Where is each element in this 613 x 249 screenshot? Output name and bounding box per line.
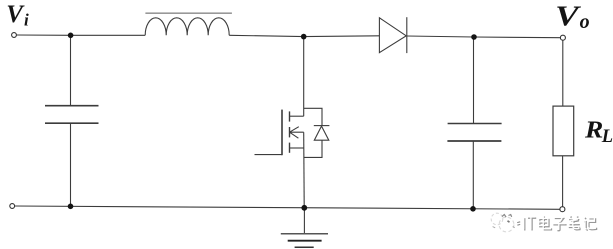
- watermark logo (panda sketch): [491, 213, 520, 232]
- resistor RL body: [553, 106, 574, 156]
- capacitor C1 top plate: [45, 105, 99, 107]
- capacitor C2 bottom plate: [447, 140, 501, 142]
- wire: body diode branch top: [304, 108, 322, 125]
- ground bar 1: [281, 233, 328, 235]
- wire: capacitor C2 to bottom rail node F: [472, 141, 474, 209]
- diode D1 cathode bar: [406, 17, 408, 53]
- ground bar 3: [295, 246, 314, 248]
- output terminal (Vo +): [560, 35, 565, 40]
- ground bar 2: [288, 240, 322, 242]
- output terminal (bottom right): [560, 207, 565, 212]
- wire: node B down to MOSFET Q1 drain: [303, 37, 305, 117]
- wire: node C to output terminal: [474, 36, 560, 39]
- wire: top rail, input terminal to inductor (through node A): [16, 34, 145, 36]
- node E junction dot: [301, 205, 307, 211]
- wire: MOSFET Q1 source down to bottom rail node E: [303, 132, 306, 208]
- capacitor C2 top plate: [448, 123, 502, 125]
- MOSFET Q1 source lead: [290, 147, 304, 149]
- svg-text:R: R: [584, 118, 603, 144]
- wire: output terminal down to resistor RL: [562, 40, 564, 106]
- wire: inductor to node B: [229, 35, 304, 36]
- MOSFET Q1 body lead with arrow: [290, 127, 304, 139]
- wire: bottom rail: [15, 206, 560, 209]
- wire: ground stem: [303, 208, 305, 234]
- input terminal (Vi +): [12, 33, 17, 38]
- svg-text:o: o: [580, 11, 590, 33]
- svg-text:V: V: [6, 1, 25, 28]
- node B junction dot: [301, 34, 307, 40]
- svg-text:i: i: [24, 11, 29, 30]
- wire: diode D1 cathode to node C: [407, 36, 474, 37]
- MOSFET Q1 drain lead: [290, 115, 304, 117]
- svg-text:V: V: [555, 0, 582, 32]
- node C junction dot: [471, 34, 477, 40]
- input terminal (bottom left): [10, 204, 15, 209]
- node D junction dot: [68, 204, 74, 210]
- capacitor C1 bottom plate: [45, 122, 99, 124]
- node F junction dot: [470, 206, 476, 212]
- MOSFET Q1 gate lead wire: [255, 154, 283, 156]
- wire: resistor RL to bottom-right terminal: [562, 156, 564, 207]
- svg-text:L: L: [601, 127, 613, 147]
- MOSFET Q1 gate plate: [281, 110, 283, 156]
- node A junction dot: [68, 33, 74, 39]
- wire: capacitor C1 to bottom rail node D: [70, 123, 72, 206]
- wire: node A down to capacitor C1: [70, 35, 72, 105]
- MOSFET Q1 channel dash (drain): [289, 111, 291, 121]
- diode D1 triangle: [379, 18, 406, 53]
- wire: node C down to capacitor C2: [473, 37, 475, 123]
- MOSFET Q1 channel dash (body): [289, 127, 291, 137]
- wire: node B to diode D1 anode: [304, 35, 380, 38]
- MOSFET Q1 channel dash (source): [289, 143, 291, 153]
- inductor L1 (4-hump coil): [145, 18, 229, 36]
- body diode DB triangle: [314, 126, 329, 140]
- wire: body diode branch bottom: [304, 140, 322, 157]
- body diode DB cathode bar: [314, 125, 330, 127]
- inductor L1 core bar: [145, 12, 232, 14]
